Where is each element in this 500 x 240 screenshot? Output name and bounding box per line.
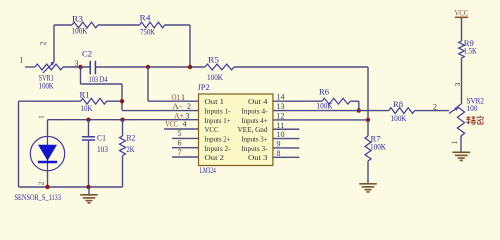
svg-text:1: 1 (450, 140, 459, 144)
svg-text:1: 1 (37, 115, 46, 119)
svg-text:2K: 2K (127, 145, 135, 154)
junction C1 top (86, 118, 90, 122)
svg-text:C1: C1 (97, 134, 106, 143)
svg-text:Inputs 4+: Inputs 4+ (242, 116, 268, 125)
wire: main rail C2 to R5 (95, 66, 205, 68)
svg-text:O1: O1 (172, 93, 181, 102)
resistor R5 (205, 64, 234, 70)
resistor R4 (140, 22, 165, 28)
svg-text:2: 2 (433, 103, 437, 112)
wire: R9 to SVR2 (461, 58, 463, 104)
svg-text:9: 9 (277, 139, 281, 148)
svg-text:VEE, Gnd: VEE, Gnd (238, 125, 268, 134)
junction node 3 (78, 65, 82, 69)
resistor R9 (459, 41, 465, 58)
svg-text:R6: R6 (319, 87, 329, 96)
wire: sensor bottom riser (47, 171, 49, 187)
svg-text:1: 1 (181, 93, 185, 102)
svg-text:R2: R2 (127, 134, 136, 143)
svg-text:R4: R4 (140, 14, 151, 23)
wire: node3 down-right to R1 junction (80, 67, 82, 84)
pin 7 stub (172, 156, 199, 158)
junction pin12 / divider (366, 118, 370, 122)
svg-text:Inputs 4-: Inputs 4- (242, 106, 268, 115)
svg-text:6: 6 (178, 139, 182, 148)
wire: A+ row (pin 3) (48, 119, 199, 121)
svg-text:VCC: VCC (165, 119, 177, 128)
pin 13 stub (273, 110, 300, 112)
wire: right drop to pin12 row (367, 67, 369, 120)
svg-text:Inputs 1-: Inputs 1- (205, 106, 231, 115)
resistor R7 (367, 120, 369, 136)
svg-text:Inputs 3-: Inputs 3- (242, 144, 268, 153)
junction sensor bottom (45, 185, 49, 189)
pin 8 stub (273, 156, 300, 158)
svg-text:1.5K: 1.5K (464, 46, 477, 55)
svg-text:Out 2: Out 2 (205, 153, 225, 162)
wire: R7 to ground (367, 161, 369, 184)
svg-text:1: 1 (20, 55, 24, 64)
wire: Out1 riser and stub (147, 67, 149, 101)
wire: main rail SVR1 to C2 (63, 66, 90, 68)
svg-text:103: 103 (97, 145, 108, 154)
svg-text:100K: 100K (207, 73, 223, 82)
pin 14 stub (273, 100, 300, 102)
svg-text:12: 12 (277, 111, 285, 120)
resistor R8 (389, 108, 415, 114)
svg-text:103 D4: 103 D4 (89, 75, 108, 84)
potentiometer SVR2 (457, 104, 464, 136)
svg-text:100K: 100K (370, 143, 386, 152)
svg-text:100K: 100K (39, 81, 54, 90)
svg-text:R3: R3 (72, 15, 83, 24)
pin 11 stub (273, 128, 300, 130)
svg-text:3: 3 (453, 82, 462, 86)
wire: input 1 to SVR1 (25, 66, 35, 68)
value label 精密 (CJK strokes) (466, 116, 483, 124)
svg-text:VCC: VCC (205, 125, 219, 134)
wire: sensor top riser (47, 120, 49, 137)
resistor R6 (322, 98, 350, 104)
svg-text:750K: 750K (140, 27, 155, 36)
resistor R3 (72, 22, 98, 28)
svg-text:Out 3: Out 3 (248, 153, 268, 162)
ground below SVR2 (453, 151, 471, 153)
svg-text:4: 4 (183, 119, 187, 128)
svg-text:R8: R8 (393, 100, 403, 109)
photodiode SENSOR_S_1133 (47, 137, 49, 171)
svg-text:JP2: JP2 (198, 83, 210, 92)
svg-text:3: 3 (75, 59, 79, 68)
svg-text:14: 14 (277, 93, 285, 102)
junction R6/pin13 (357, 108, 361, 112)
wire: bottom rail (19, 186, 123, 188)
wire: pin14 to R6 (299, 100, 322, 102)
wire: top rail left (54, 24, 72, 26)
svg-text:Inputs 2-: Inputs 2- (205, 144, 231, 153)
svg-text:2: 2 (37, 181, 46, 185)
svg-text:100K: 100K (391, 114, 407, 123)
junction C1 bottom (86, 185, 90, 189)
svg-text:10K: 10K (81, 104, 93, 113)
pin 12 stub (273, 119, 300, 121)
svg-text:100K: 100K (72, 26, 88, 35)
wire: R1 row (19, 100, 81, 102)
svg-text:C2: C2 (82, 49, 92, 58)
pin 5 stub (172, 137, 199, 139)
svg-text:7: 7 (178, 148, 182, 157)
wire: R6 to pin13 row (350, 100, 359, 102)
svg-text:Inputs 2+: Inputs 2+ (205, 135, 231, 144)
wire: SVR1 wiper riser (53, 25, 55, 62)
svg-text:8: 8 (277, 149, 281, 158)
svg-text:2: 2 (39, 42, 48, 46)
wire: top rail right + drop to main rail (165, 24, 190, 26)
svg-text:LM324: LM324 (200, 166, 216, 175)
svg-text:100: 100 (467, 104, 478, 113)
capacitor C2 (89, 61, 91, 74)
wire: pin12 row (299, 119, 368, 121)
svg-text:5: 5 (178, 129, 182, 138)
resistor R2 (122, 120, 124, 136)
junction R2 top (120, 118, 124, 122)
op-amp U1 LM324 body (199, 94, 273, 166)
wire: SVR2 to ground (460, 136, 462, 152)
svg-text:Out 1: Out 1 (205, 97, 225, 106)
wire: R8 to SVR2 wiper (415, 110, 449, 112)
wire: R1 left leg down (18, 101, 20, 187)
resistor R1 (81, 98, 107, 104)
svg-text:A-: A- (172, 102, 182, 111)
wire: main rail to right drop (234, 66, 368, 68)
svg-text:Out 4: Out 4 (248, 97, 268, 106)
ground below C1 (88, 187, 90, 195)
svg-text:VCC: VCC (455, 8, 469, 17)
junction at top-loop drop (188, 65, 192, 69)
svg-text:R1: R1 (80, 91, 90, 100)
potentiometer SVR1 (35, 64, 63, 70)
capacitor C1 (88, 120, 90, 137)
junction R1 right (120, 99, 124, 103)
svg-text:R5: R5 (208, 56, 219, 65)
svg-text:13: 13 (277, 102, 285, 111)
pin 6 stub (172, 147, 199, 149)
pin 10 stub (273, 138, 300, 140)
ground below R7 (359, 183, 377, 185)
svg-text:100K: 100K (317, 102, 333, 111)
svg-text:2: 2 (187, 102, 191, 111)
svg-text:SENSOR_S_1133: SENSOR_S_1133 (15, 193, 62, 202)
pin 9 stub (273, 147, 300, 149)
svg-text:Inputs 1+: Inputs 1+ (205, 116, 231, 125)
wire: A- into pin 2 (122, 110, 199, 112)
net label VCC + pin 4 stub (164, 128, 199, 130)
wire: pin13 row to R8 (299, 110, 388, 112)
wire: between R3 and R4 (98, 24, 140, 26)
svg-text:Inputs 3+: Inputs 3+ (242, 135, 268, 144)
svg-text:11: 11 (277, 121, 285, 130)
junction at Out1 riser (146, 65, 150, 69)
svg-text:10: 10 (277, 130, 285, 139)
